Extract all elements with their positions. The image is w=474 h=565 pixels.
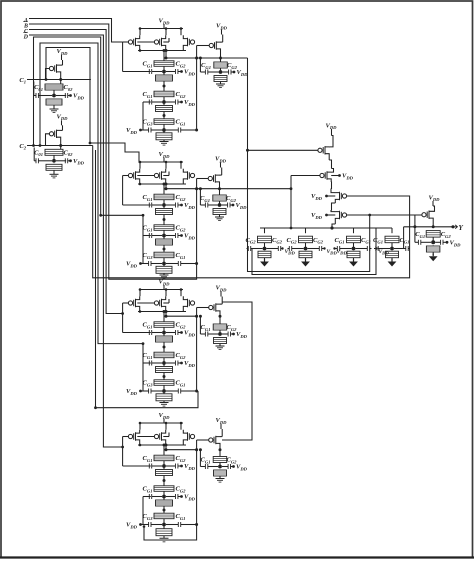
svg-text:VDD: VDD: [379, 249, 390, 256]
svg-text:D: D: [23, 34, 29, 40]
svg-text:VDD: VDD: [285, 249, 296, 256]
svg-text:VDD: VDD: [337, 249, 348, 256]
svg-text:Y: Y: [459, 224, 464, 232]
